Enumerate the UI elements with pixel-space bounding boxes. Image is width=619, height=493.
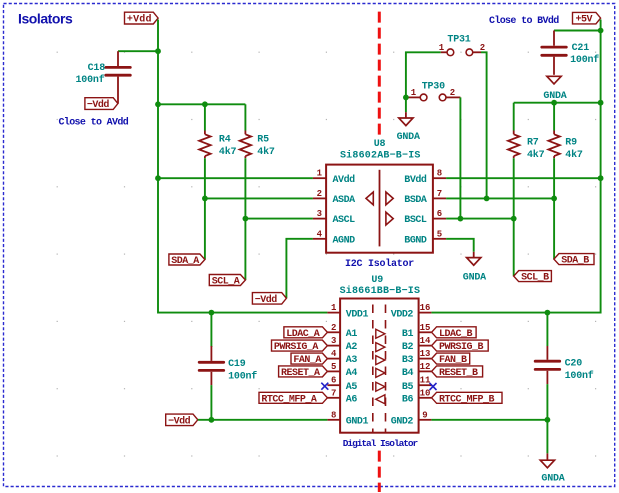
capacitor C20 [535,313,594,420]
resistor R9 [548,103,583,259]
svg-text:PWRSIG_B: PWRSIG_B [439,342,484,353]
svg-text:2: 2 [317,189,322,199]
svg-text:RESET_B: RESET_B [439,368,478,379]
svg-text:Si8602AB−B−IS: Si8602AB−B−IS [340,149,421,161]
svg-text:U9: U9 [371,275,383,286]
isolation barrier dashes inside U9 [372,305,374,433]
svg-text:A5: A5 [346,382,358,393]
svg-text:2: 2 [331,323,336,333]
svg-text:3: 3 [331,336,336,346]
svg-text:Digital Isolator: Digital Isolator [343,438,419,449]
buffer triangle (BSCL, right) [386,212,393,225]
svg-text:A3: A3 [346,355,358,366]
svg-text:7: 7 [331,388,336,398]
svg-text:Close to AVdd: Close to AVdd [59,116,129,128]
pin 2 ASDA [313,197,326,199]
power flag -Vdd (below C18) [85,98,118,111]
pin 7 BSDA [433,197,446,199]
junction at +Vdd/C18 [155,48,161,54]
power flag -Vdd (bottom left) [166,414,198,427]
wire C18 top connection [118,50,158,52]
svg-text:R7: R7 [527,137,539,148]
capacitor C18 [75,51,130,103]
svg-text:100nf: 100nf [565,370,594,382]
ground GNDA (below TP30) [397,112,420,143]
svg-text:13: 13 [420,349,431,359]
hierarchical label FAN_A [291,353,327,366]
svg-text:Isolators: Isolators [18,11,73,27]
svg-text:Close to BVdd: Close to BVdd [489,15,559,27]
pin 8 GND1 [327,419,340,421]
svg-text:C18: C18 [88,63,106,74]
pin 7 A6 [327,397,340,399]
junction left rail / top bar [155,101,161,107]
hierarchical label LDAC_A [284,327,328,340]
svg-text:I2C Isolator: I2C Isolator [345,258,414,270]
buffer triangle (BSDA, right) [386,192,393,205]
svg-text:R4: R4 [219,134,231,145]
svg-text:U8: U8 [374,139,386,150]
hierarchical label RESET_A [279,366,328,379]
channel triangle A6 (reversed) [376,395,385,404]
svg-text:+Vdd: +Vdd [127,14,152,26]
svg-text:5: 5 [437,229,442,239]
svg-text:4k7: 4k7 [219,146,237,158]
pin 4 A3 [327,358,340,360]
pin 16 VDD2 [419,312,432,314]
junction +5V rail / C21 bar [598,28,604,34]
svg-text:15: 15 [420,323,431,333]
svg-text:FAN_B: FAN_B [439,355,467,366]
wire +5V right rail [431,20,600,313]
hierarchical label RTCC_MFP_B [432,392,502,405]
svg-text:6: 6 [331,376,336,386]
pin 6 BSCL [433,218,446,220]
isolation barrier dashed line (bottom) [378,451,381,492]
hierarchical label SDA_B [554,254,594,267]
svg-text:8: 8 [331,410,336,420]
wire BSCL row [446,218,514,220]
isolation barrier dashed line (top) [378,12,381,135]
wire TP31 pin1 to TP30 junction [406,52,441,112]
wire BVdd row [446,177,600,179]
svg-text:9: 9 [422,410,427,420]
svg-text:SDA_A: SDA_A [171,256,199,267]
svg-text:−Vdd: −Vdd [255,294,278,306]
svg-text:BSDA: BSDA [404,195,427,206]
svg-text:−Vdd: −Vdd [168,415,191,427]
junction top bar / right rail [598,100,604,106]
svg-text:AVdd: AVdd [333,174,356,186]
wire GND2 row [431,420,547,454]
no-connect X at pin B5 [430,383,437,390]
svg-text:−Vdd: −Vdd [87,99,110,111]
svg-text:BSCL: BSCL [404,215,427,226]
no-connect X at pin A5 [321,383,328,390]
svg-text:6: 6 [437,209,442,219]
channel triangle A1 [376,329,385,338]
junction C20 top / VDD2 row [545,310,551,316]
ground GNDA (bottom right) [540,453,564,484]
svg-text:4k7: 4k7 [565,149,583,161]
svg-text:3: 3 [317,209,322,219]
svg-text:1: 1 [317,169,323,179]
wire +Vdd down the left rail [158,20,327,313]
svg-text:FAN_A: FAN_A [293,355,321,366]
channel triangle A2 [376,343,385,352]
junction BVdd row / right rail [598,175,604,181]
svg-text:A2: A2 [346,342,358,353]
wire ASCL row [245,218,313,220]
svg-text:GNDA: GNDA [463,272,486,283]
power flag +5V [573,12,601,25]
svg-text:GNDA: GNDA [397,132,420,143]
svg-text:5: 5 [331,362,336,372]
svg-text:+5V: +5V [576,15,593,26]
wire resistor top bar R4/R5 [158,103,245,105]
wire AVdd row [158,177,313,179]
power flag -Vdd (AGND) [252,293,286,306]
junction R5 bottom / ASCL row [243,216,249,222]
svg-text:C19: C19 [228,359,246,370]
svg-text:AGND: AGND [333,235,356,246]
wire ASDA row [205,197,313,199]
resistor R4 [199,104,236,259]
junction C19 bottom [209,417,215,423]
svg-text:A6: A6 [346,394,358,405]
pin 1 VDD1 [327,312,340,314]
power flag +Vdd [125,12,159,25]
svg-text:B1: B1 [402,329,414,340]
svg-text:A4: A4 [346,368,358,379]
svg-text:SDA_B: SDA_B [561,256,589,267]
channel triangle A5 [376,382,385,391]
svg-text:8: 8 [437,169,442,179]
pin 12 B4 [419,370,432,372]
channel triangle A4 [376,368,385,377]
svg-text:A1: A1 [346,329,358,340]
pin 2 A1 [327,331,340,333]
wire BGND to ground [446,239,474,252]
pin 13 B3 [419,358,432,360]
svg-text:ASDA: ASDA [333,195,356,206]
hierarchical label SDA_A [169,254,205,267]
svg-text:4k7: 4k7 [527,149,545,161]
svg-text:100nf: 100nf [75,74,104,86]
wire GND1 row [198,419,328,421]
junction R4 top [202,101,208,107]
resistor R7 [508,103,545,276]
pin 4 AGND [313,238,326,240]
pin 6 A5 [327,384,340,386]
pin 5 A4 [327,370,340,372]
pin 15 B1 [419,331,432,333]
hierarchical label RTCC_MFP_A [259,392,327,405]
svg-text:1: 1 [411,88,417,98]
svg-text:TP31: TP31 [447,35,470,46]
junction R7 / BSCL row [511,216,517,222]
svg-text:12: 12 [420,362,431,372]
svg-text:B5: B5 [402,382,414,393]
channel triangle A3 [376,356,385,365]
IC U9 Si8661BB-B-IS [327,275,431,433]
svg-text:VDD1: VDD1 [346,309,369,320]
svg-text:R5: R5 [257,134,269,145]
wire AGND to -Vdd [286,239,313,298]
svg-text:B2: B2 [402,342,414,353]
pin 8 BVdd [433,177,446,179]
pin 1 AVdd [313,177,326,179]
wire C21 top connection [554,30,601,32]
svg-text:GND1: GND1 [346,416,369,427]
op-amp style buffer triangle (ASDA, left) [366,192,373,205]
svg-text:4k7: 4k7 [257,146,275,158]
svg-text:TP30: TP30 [422,81,445,92]
junction R9 / BSDA row [551,196,557,202]
svg-text:100nf: 100nf [570,54,599,66]
svg-text:2: 2 [450,88,455,98]
IC U8 Si8602AB-B-IS [313,139,446,253]
svg-text:7: 7 [437,189,442,199]
svg-text:16: 16 [420,303,431,313]
svg-text:C20: C20 [565,359,583,370]
wire TP31 pin2 down to BSDA row [481,52,487,198]
wire BSDA row [446,197,554,199]
capacitor C19 [199,313,257,420]
hierarchical label FAN_B [432,353,470,366]
pin 14 B2 [419,345,432,347]
junction R9 top [551,100,557,106]
junction R4 bottom / ASDA row [202,196,208,202]
hierarchical label RESET_B [432,366,483,379]
svg-text:1: 1 [331,303,337,313]
svg-text:100nf: 100nf [228,370,257,382]
svg-text:PWRSIG_A: PWRSIG_A [274,342,319,353]
svg-text:4: 4 [331,349,337,359]
hierarchical label LDAC_B [432,327,477,340]
junction VDD1 row / C19 [209,310,215,316]
svg-text:ASCL: ASCL [333,215,356,226]
svg-text:BGND: BGND [404,235,427,246]
svg-text:B6: B6 [402,394,414,405]
svg-text:LDAC_A: LDAC_A [286,329,320,340]
junction left rail / AVdd row [155,175,161,181]
svg-text:Si8661BB−B−IS: Si8661BB−B−IS [340,285,421,297]
hierarchical label SCL_A [209,275,245,288]
wire R7/R9 top bar [514,102,601,104]
svg-text:B3: B3 [402,355,414,366]
ground GNDA (BGND) [463,252,486,283]
wire TP30 pin2 down to BSCL row [459,97,461,218]
svg-text:C21: C21 [572,43,590,54]
svg-text:4: 4 [317,229,323,239]
hierarchical label PWRSIG_B [432,340,489,353]
junction TP30 drop / BSCL row [458,216,464,222]
svg-text:VDD2: VDD2 [391,309,414,320]
pin 11 B5 [419,384,432,386]
svg-text:BVdd: BVdd [404,174,427,186]
capacitor C21 [542,31,600,75]
svg-text:11: 11 [420,376,431,386]
svg-text:GNDA: GNDA [541,474,564,485]
junction TP31 drop / BSDA row [484,196,490,202]
svg-text:RESET_A: RESET_A [281,368,320,379]
hierarchical label SCL_B [514,271,552,284]
test point TP31 [439,35,485,56]
resistor R5 [240,104,275,280]
test point TP30 [406,81,460,100]
svg-text:B4: B4 [402,368,414,379]
svg-text:14: 14 [420,336,431,346]
svg-text:R9: R9 [565,137,577,148]
junction TP30 pin1 [403,95,409,101]
svg-text:GND2: GND2 [391,416,414,427]
svg-text:RTCC_MFP_A: RTCC_MFP_A [261,394,317,405]
hierarchical label PWRSIG_A [272,340,328,353]
svg-text:SCL_A: SCL_A [212,277,240,288]
pin 10 B6 [419,397,432,399]
junction C20 bottom [545,417,551,423]
ground GNDA (below C21) [543,76,566,102]
svg-text:10: 10 [420,388,431,398]
pin 3 A2 [327,345,340,347]
svg-text:RTCC_MFP_B: RTCC_MFP_B [439,394,495,405]
pin 5 BGND [433,238,446,240]
svg-text:SCL_B: SCL_B [521,273,549,284]
pin 9 GND2 [419,419,432,421]
svg-text:LDAC_B: LDAC_B [439,329,473,340]
pin 3 ASCL [313,218,326,220]
